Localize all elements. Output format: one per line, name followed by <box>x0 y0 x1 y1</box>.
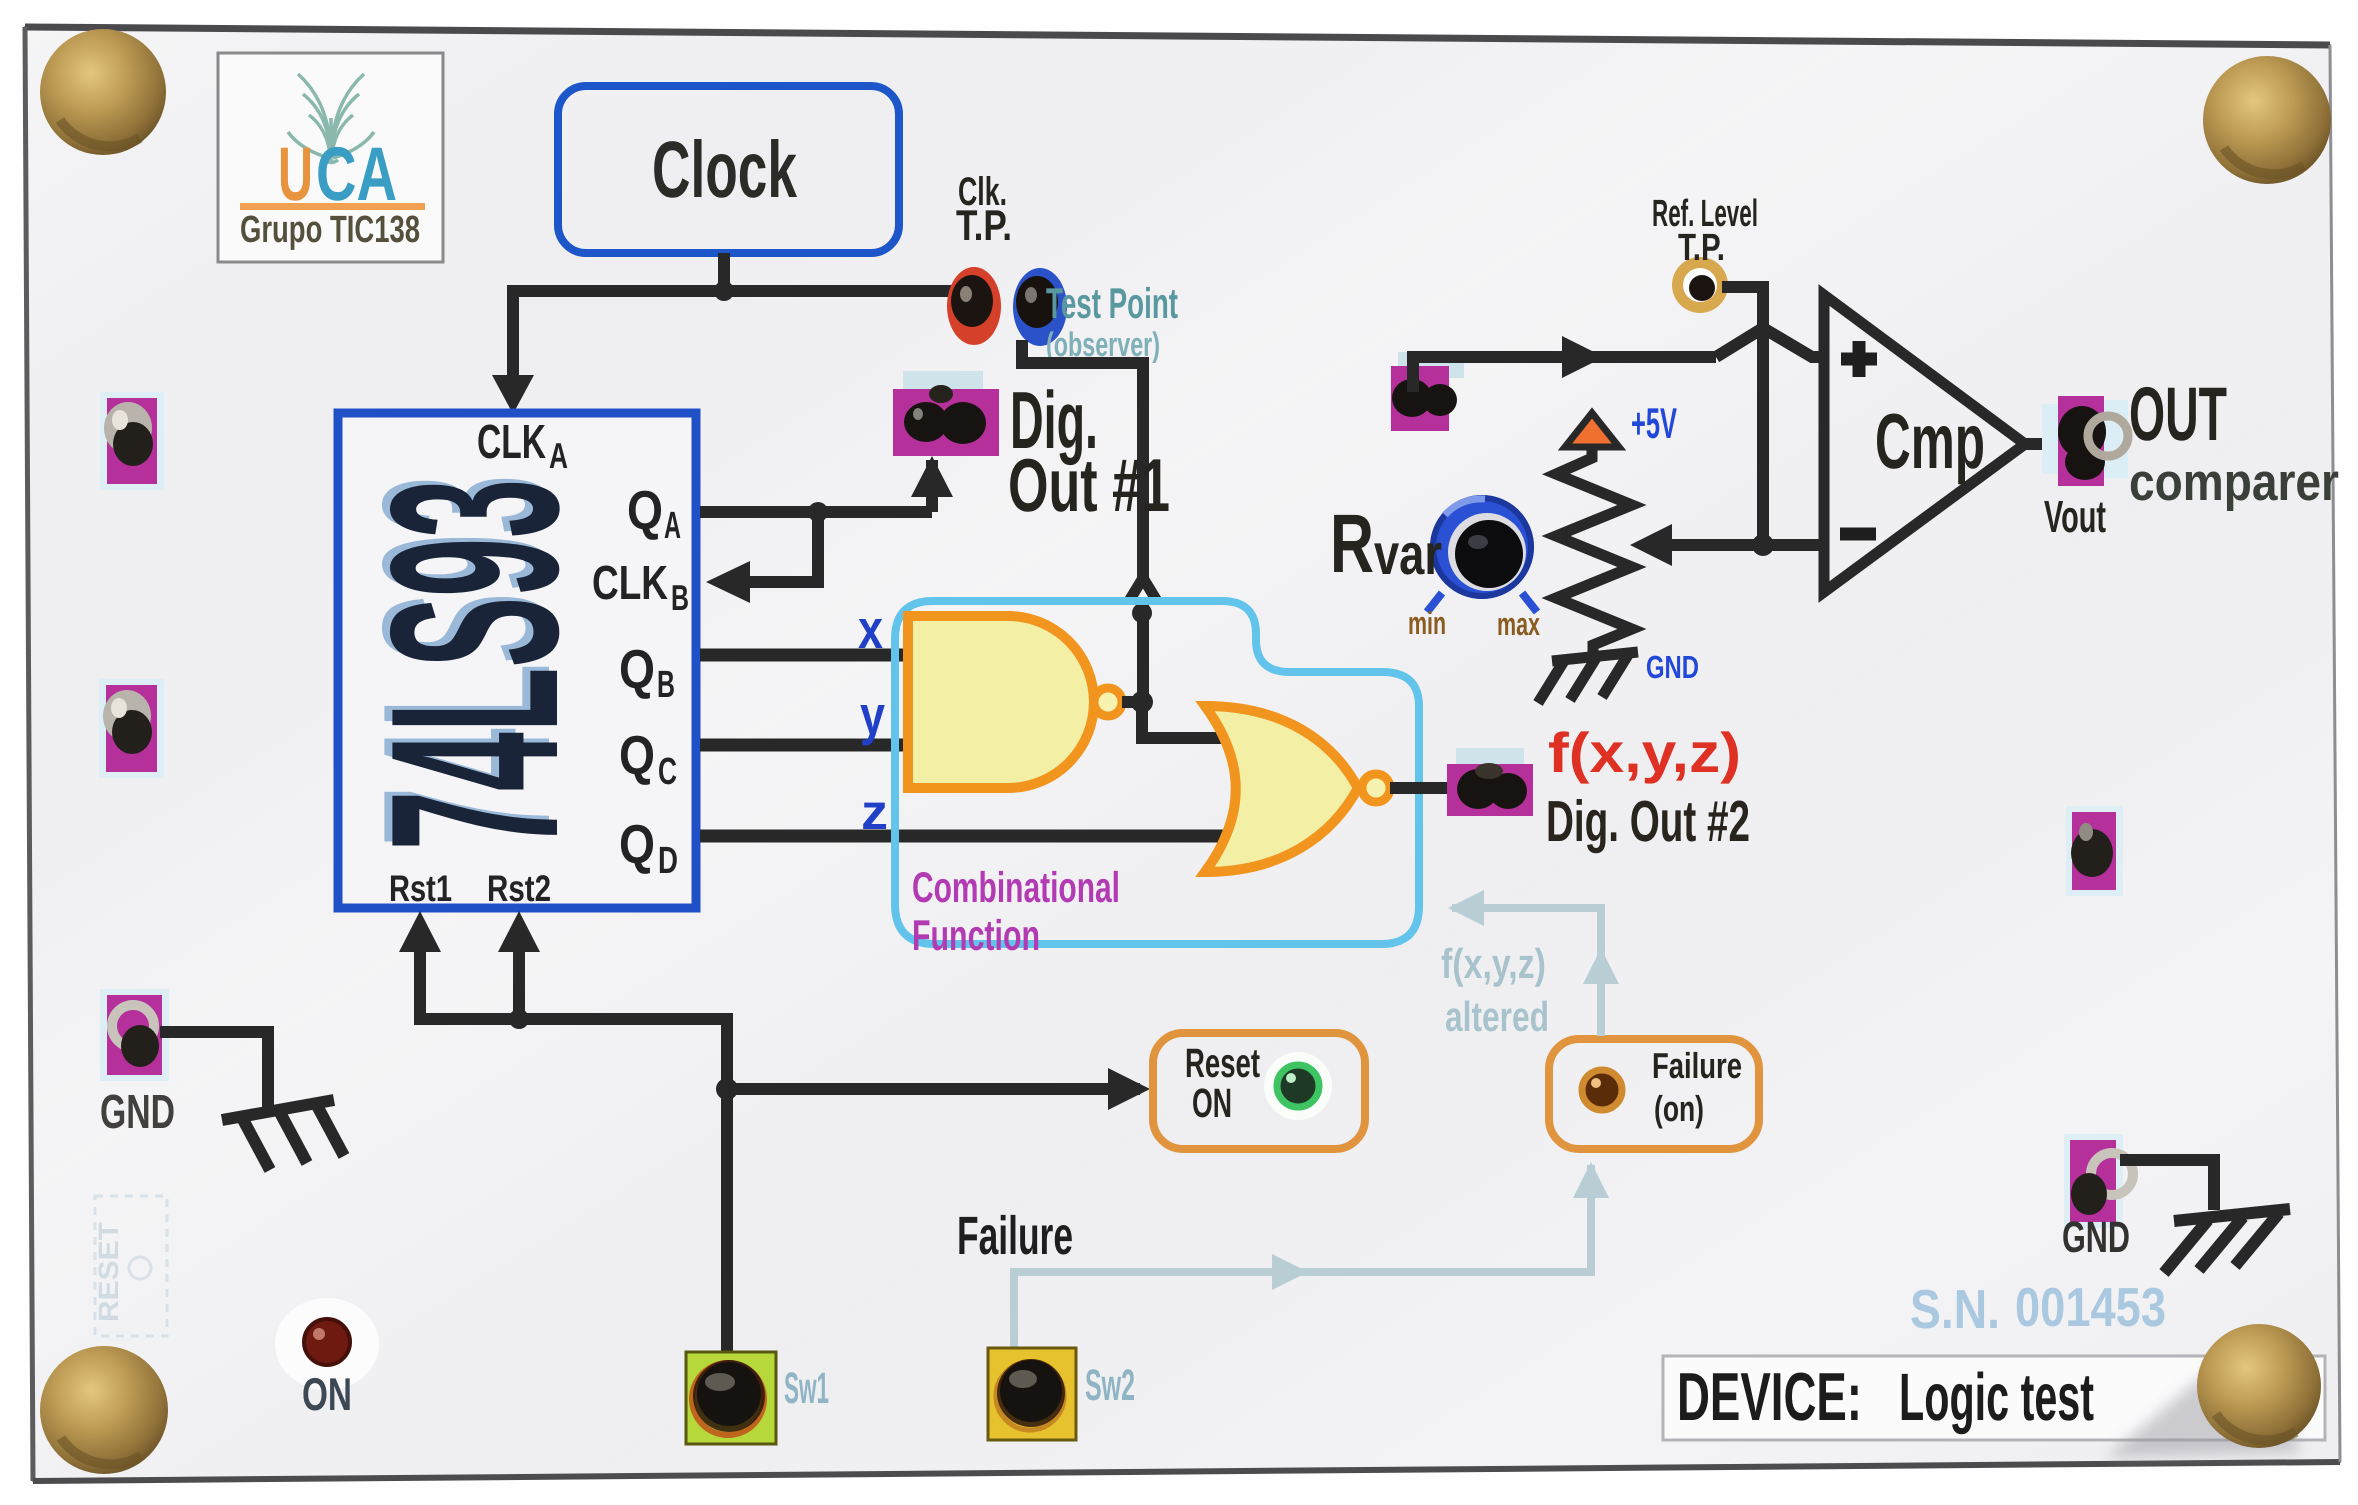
svg-text:R: R <box>1330 497 1374 590</box>
svg-text:min: min <box>1408 605 1446 641</box>
svg-text:(on): (on) <box>1654 1088 1704 1129</box>
wire hop over block edge <box>1129 578 1157 601</box>
svg-text:C: C <box>658 751 677 793</box>
switch Sw1 <box>686 1352 776 1444</box>
pin label QB <box>619 638 675 706</box>
svg-text:T.P.: T.P. <box>956 202 1012 250</box>
node reset-sw1 junction <box>716 1078 738 1100</box>
Failure indicator box <box>1549 1039 1759 1149</box>
svg-text:Failure: Failure <box>957 1206 1073 1266</box>
svg-text:Rst1: Rst1 <box>389 868 452 909</box>
label f(x,y,z) altered <box>1441 940 1549 1040</box>
test point Ref Level TP <box>1672 257 1728 313</box>
svg-text:D: D <box>658 840 678 882</box>
svg-text:Sw2: Sw2 <box>1085 1361 1135 1410</box>
ground symbol left <box>222 1100 344 1170</box>
wire node to NOR input <box>1142 702 1252 738</box>
arrowhead into Dig Out 1 <box>911 456 953 497</box>
svg-text:altered: altered <box>1445 993 1549 1040</box>
arrowhead into Rst2 <box>498 911 540 952</box>
wire into NAND output node <box>1137 601 1149 700</box>
wire QA up to Dig Out 1 <box>926 460 938 512</box>
wire QA to node <box>700 506 932 518</box>
pin label QD <box>619 813 678 882</box>
test point Clk TP red jack <box>947 267 1001 345</box>
label Clk. T.P. <box>956 170 1012 250</box>
label Test Point (observer) <box>1046 280 1178 364</box>
svg-text:Function: Function <box>912 912 1040 960</box>
svg-text:RESET: RESET <box>93 1222 124 1322</box>
svg-text:ON: ON <box>1192 1080 1232 1126</box>
UCA logo box <box>218 53 443 262</box>
svg-text:Grupo TIC138: Grupo TIC138 <box>240 209 420 251</box>
svg-text:A: A <box>549 435 568 476</box>
svg-text:A: A <box>664 505 681 547</box>
pin label QC <box>619 724 677 793</box>
ground symbol right <box>2164 1209 2290 1273</box>
svg-text:Out #1: Out #1 <box>1008 443 1170 527</box>
corner screw bottom-left <box>40 1346 168 1474</box>
svg-text:Combinational: Combinational <box>912 864 1120 912</box>
combinational function block outline <box>895 601 1419 944</box>
arrowhead on plus wire <box>1562 336 1604 378</box>
svg-text:B: B <box>657 664 675 706</box>
wire QB x <box>700 649 908 662</box>
resistor R1 zigzag <box>1556 447 1632 656</box>
svg-text:max: max <box>1497 606 1540 642</box>
pale arrowhead right <box>1272 1254 1308 1290</box>
svg-text:DEVICE:: DEVICE: <box>1677 1359 1862 1435</box>
corner screw top-right <box>2203 56 2331 184</box>
wire QA feedback to CLKB <box>750 512 818 582</box>
connector J9 GND right <box>2064 1134 2133 1228</box>
svg-text:CLK: CLK <box>477 416 546 469</box>
corner screw top-left <box>40 29 166 155</box>
svg-text:T.P.: T.P. <box>1678 227 1725 269</box>
svg-text:CLK: CLK <box>592 557 668 610</box>
shadow wedge bottom-right <box>2105 1345 2302 1458</box>
board right edge <box>2330 45 2340 1462</box>
label Dig. Out #1 <box>1008 376 1170 527</box>
svg-text:GND: GND <box>100 1086 175 1139</box>
svg-text:001453: 001453 <box>2015 1276 2166 1338</box>
svg-text:Q: Q <box>627 479 663 541</box>
label OUT comparer Vout <box>2044 372 2339 542</box>
wire minus input <box>1668 539 1826 551</box>
NOR gate U3 <box>1205 706 1390 872</box>
wire Rst2 up <box>513 935 525 1019</box>
board left edge <box>25 27 33 1481</box>
svg-text:Logic test: Logic test <box>1899 1360 2094 1435</box>
arrowhead into resistor wiper <box>1630 524 1672 566</box>
arrowhead into CLKB <box>706 561 750 603</box>
comparator Cmp <box>1824 295 2025 592</box>
board bottom edge <box>33 1462 2340 1481</box>
IC U1 74LS93 box <box>333 413 696 908</box>
pale arrowhead up above box <box>1583 948 1619 984</box>
wire NAND out to node <box>1122 696 1138 708</box>
connector J7 GND left <box>100 989 169 1081</box>
pale arrowhead left into block <box>1448 890 1484 926</box>
oscillator block Clock <box>558 86 899 253</box>
wire NOR out to Dig Out 2 <box>1390 782 1450 794</box>
svg-text:Failure: Failure <box>1652 1045 1742 1086</box>
label Rvar <box>1330 497 1442 590</box>
svg-text:Sw1: Sw1 <box>784 1364 829 1413</box>
power +5V symbol <box>1565 400 1677 448</box>
wire down to Sw1 <box>721 1089 733 1352</box>
svg-text:+5V: +5V <box>1631 400 1677 448</box>
svg-text:f(x,y,z): f(x,y,z) <box>1548 721 1741 784</box>
pin label CLKA <box>477 416 568 476</box>
node Rst2 junction <box>509 1009 529 1029</box>
corner screw bottom-right <box>2197 1324 2321 1448</box>
svg-text:Test Point: Test Point <box>1046 280 1178 328</box>
comparator input connector J3 <box>1391 352 1464 431</box>
wire GND left to ground <box>160 1032 268 1108</box>
arrowhead into CLKA <box>492 375 534 414</box>
NAND gate U2 <box>908 616 1122 788</box>
connector J4 OUT Vout <box>2042 396 2128 486</box>
wire Clock output down <box>718 253 730 291</box>
svg-text:Rst2: Rst2 <box>487 868 551 909</box>
svg-text:comparer: comparer <box>2129 453 2339 512</box>
arrowhead into Rst1 <box>399 911 441 952</box>
svg-text:Q: Q <box>619 724 655 786</box>
label min max <box>1408 605 1540 642</box>
connector J2 Dig Out 2 <box>1447 748 1533 816</box>
test point Clk TP blue jack <box>1013 268 1067 346</box>
svg-text:var: var <box>1374 522 1442 587</box>
node NAND output <box>1131 691 1153 713</box>
svg-text:x: x <box>858 598 883 660</box>
connector J6 left lower <box>99 679 164 778</box>
svg-text:Dig. Out #2: Dig. Out #2 <box>1546 789 1750 854</box>
pin label QA <box>627 479 681 547</box>
LED amber failure <box>1582 1070 1622 1110</box>
wire test point to observer node <box>1022 340 1143 580</box>
svg-text:Q: Q <box>619 813 655 875</box>
wire comparator plus input <box>1413 357 1716 392</box>
DEVICE label box <box>1663 1356 2325 1440</box>
svg-text:y: y <box>860 684 885 746</box>
connector J1 Dig Out 1 <box>893 371 999 456</box>
node QA dot <box>808 502 828 522</box>
wire QC y <box>700 739 908 752</box>
svg-text:Cmp: Cmp <box>1875 397 1985 485</box>
wire GND right to ground <box>2120 1160 2214 1210</box>
wire QD z <box>700 830 1256 843</box>
wire hop over ref vertical <box>1716 328 1826 357</box>
wire clock bus to CLKA <box>513 291 975 380</box>
wire reset bus <box>420 935 1140 1089</box>
pin label CLKB <box>592 557 689 618</box>
failure pale path sw2 to failure led <box>1014 908 1601 1348</box>
serial number S.N. 001453 <box>1910 1276 2166 1340</box>
ground below resistor <box>1538 652 1638 703</box>
svg-text:74LS93: 74LS93 <box>341 479 608 850</box>
label Ref. Level T.P. <box>1652 193 1758 269</box>
wire comparator output <box>2020 438 2058 450</box>
svg-text:GND: GND <box>1646 649 1699 685</box>
faint RESET service mark <box>93 1196 167 1336</box>
svg-text:Q: Q <box>619 638 655 700</box>
svg-text:ON: ON <box>302 1368 352 1420</box>
svg-text:Vout: Vout <box>2044 491 2106 542</box>
node minus junction <box>1752 534 1774 556</box>
node observer dot <box>1132 603 1152 623</box>
Reset ON indicator box <box>1153 1033 1365 1149</box>
connector J5 left upper <box>100 392 164 490</box>
label Combinational Function <box>912 864 1120 960</box>
svg-text:Clock: Clock <box>652 125 797 214</box>
node clock junction <box>714 281 734 301</box>
connector J8 right mid <box>2066 806 2123 896</box>
svg-text:B: B <box>671 577 689 618</box>
wire ref TP to minus node <box>1722 287 1763 545</box>
svg-text:S.N.: S.N. <box>1910 1278 2000 1340</box>
svg-text:OUT: OUT <box>2129 372 2227 457</box>
switch Sw2 <box>988 1348 1076 1440</box>
svg-text:z: z <box>861 784 888 840</box>
svg-text:GND: GND <box>2062 1213 2130 1262</box>
LED green reset <box>1264 1052 1332 1120</box>
svg-text:f(x,y,z): f(x,y,z) <box>1441 940 1546 987</box>
LED red power ON <box>275 1298 379 1390</box>
arrowhead into Reset ON <box>1108 1068 1150 1110</box>
board top edge <box>25 27 2330 45</box>
potentiometer Rvar <box>1427 495 1537 612</box>
pale arrowhead up into failure <box>1573 1162 1609 1198</box>
